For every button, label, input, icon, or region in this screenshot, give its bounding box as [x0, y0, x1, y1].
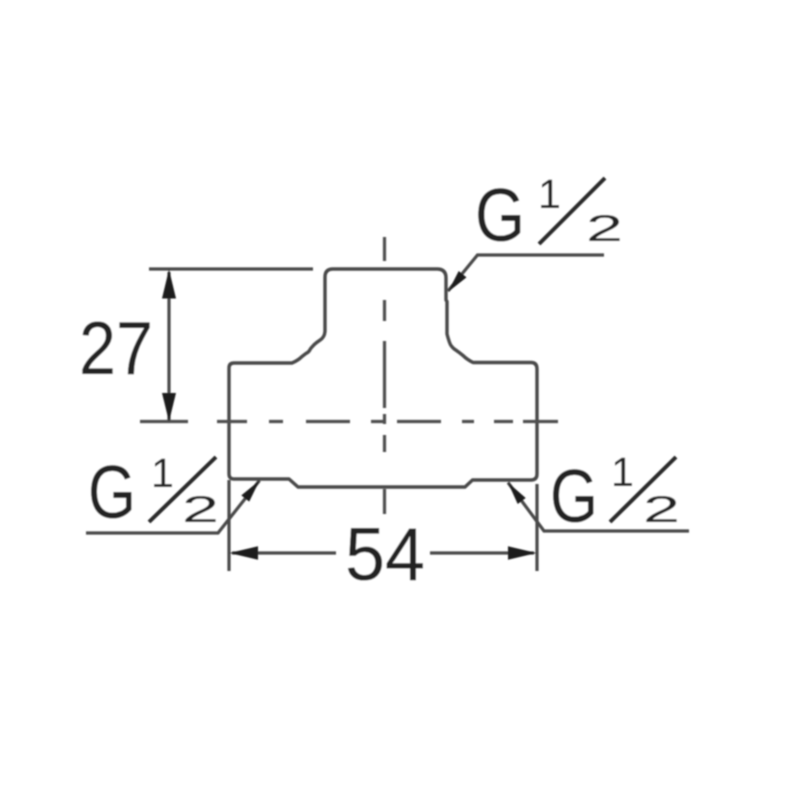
svg-text:2: 2 — [643, 489, 680, 530]
svg-text:54: 54 — [345, 512, 425, 596]
arrow down (27 bottom) — [162, 393, 176, 422]
horizontal centerline (dash-dot) — [140, 420, 558, 423]
svg-text:2: 2 — [182, 489, 219, 530]
arrow up (27 top) — [162, 270, 176, 299]
leader line bottom left (G 1/2) — [86, 481, 260, 534]
leader line top right (G 1/2) — [448, 255, 604, 291]
extension line top (for 27 dim) — [149, 267, 313, 270]
fraction slash bottom left — [149, 457, 216, 522]
leader arrow top right — [448, 271, 467, 292]
svg-text:27: 27 — [79, 306, 153, 390]
fraction slash top right — [539, 178, 605, 244]
svg-text:1: 1 — [151, 450, 174, 496]
svg-text:G: G — [550, 454, 598, 538]
svg-text:G: G — [475, 173, 525, 257]
arrow left (54) — [230, 546, 259, 560]
extension line right (for 54 dim) — [535, 484, 538, 571]
leader arrow bottom right — [508, 483, 526, 505]
dimension line 27 (vertical) — [167, 272, 170, 420]
svg-text:2: 2 — [586, 208, 623, 249]
extension line left (for 54 dim) — [227, 480, 230, 571]
fraction slash bottom right — [610, 457, 676, 522]
dimension line 54 left segment — [232, 551, 336, 554]
svg-text:G: G — [88, 450, 136, 534]
leader arrow bottom left — [241, 481, 259, 502]
arrow right (54) — [508, 546, 537, 560]
dimension line 54 right segment — [430, 551, 534, 554]
svg-text:1: 1 — [538, 171, 561, 217]
vertical centerline (dash-dot) — [383, 237, 386, 514]
tee fitting body outline — [229, 269, 537, 487]
leader line bottom right (G 1/2) — [508, 483, 689, 532]
svg-text:1: 1 — [611, 449, 634, 495]
